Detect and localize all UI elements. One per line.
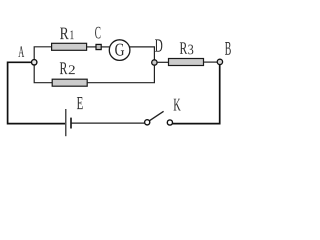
label G [115,44,124,56]
switch K right contact [167,120,172,125]
wire: node A up to top rail, right to R1 [34,47,51,60]
wire: R1 to node C square [87,46,96,48]
label K [174,99,181,111]
wire: R3 to node B [204,61,218,63]
wire: square to galvanometer [101,46,109,48]
wire: galvanometer right, down to node D [130,47,155,60]
wire: node A left, left rail down, bottom-left rail to battery [8,62,65,123]
label R3 [180,42,187,54]
label B [225,42,231,55]
wire: R2 right, up to node D [87,65,154,83]
node C (small square terminal) [96,44,101,49]
battery E short plate [70,118,72,129]
node B (terminal circle) [217,59,222,64]
resistor R2 [52,79,87,86]
resistor R3 [169,59,204,66]
galvanometer U1 (G) [109,40,130,61]
wire: node D to R3 [157,61,168,63]
wire: node B down right rail, bottom-right rail to switch [172,65,219,124]
switch K lever [150,111,164,120]
node A (junction circle) [32,60,37,65]
label A [18,46,24,57]
label R2 [60,62,68,74]
label E [77,97,83,109]
label C [95,27,100,39]
battery E long plate [65,109,67,136]
node D (junction circle) [152,60,157,65]
label R1 [60,28,69,40]
switch K left contact [145,120,150,125]
resistor R1 [52,43,87,50]
label D [155,39,162,51]
wire: node A down, right to R2 [34,65,52,83]
wire: battery to switch [72,122,145,124]
